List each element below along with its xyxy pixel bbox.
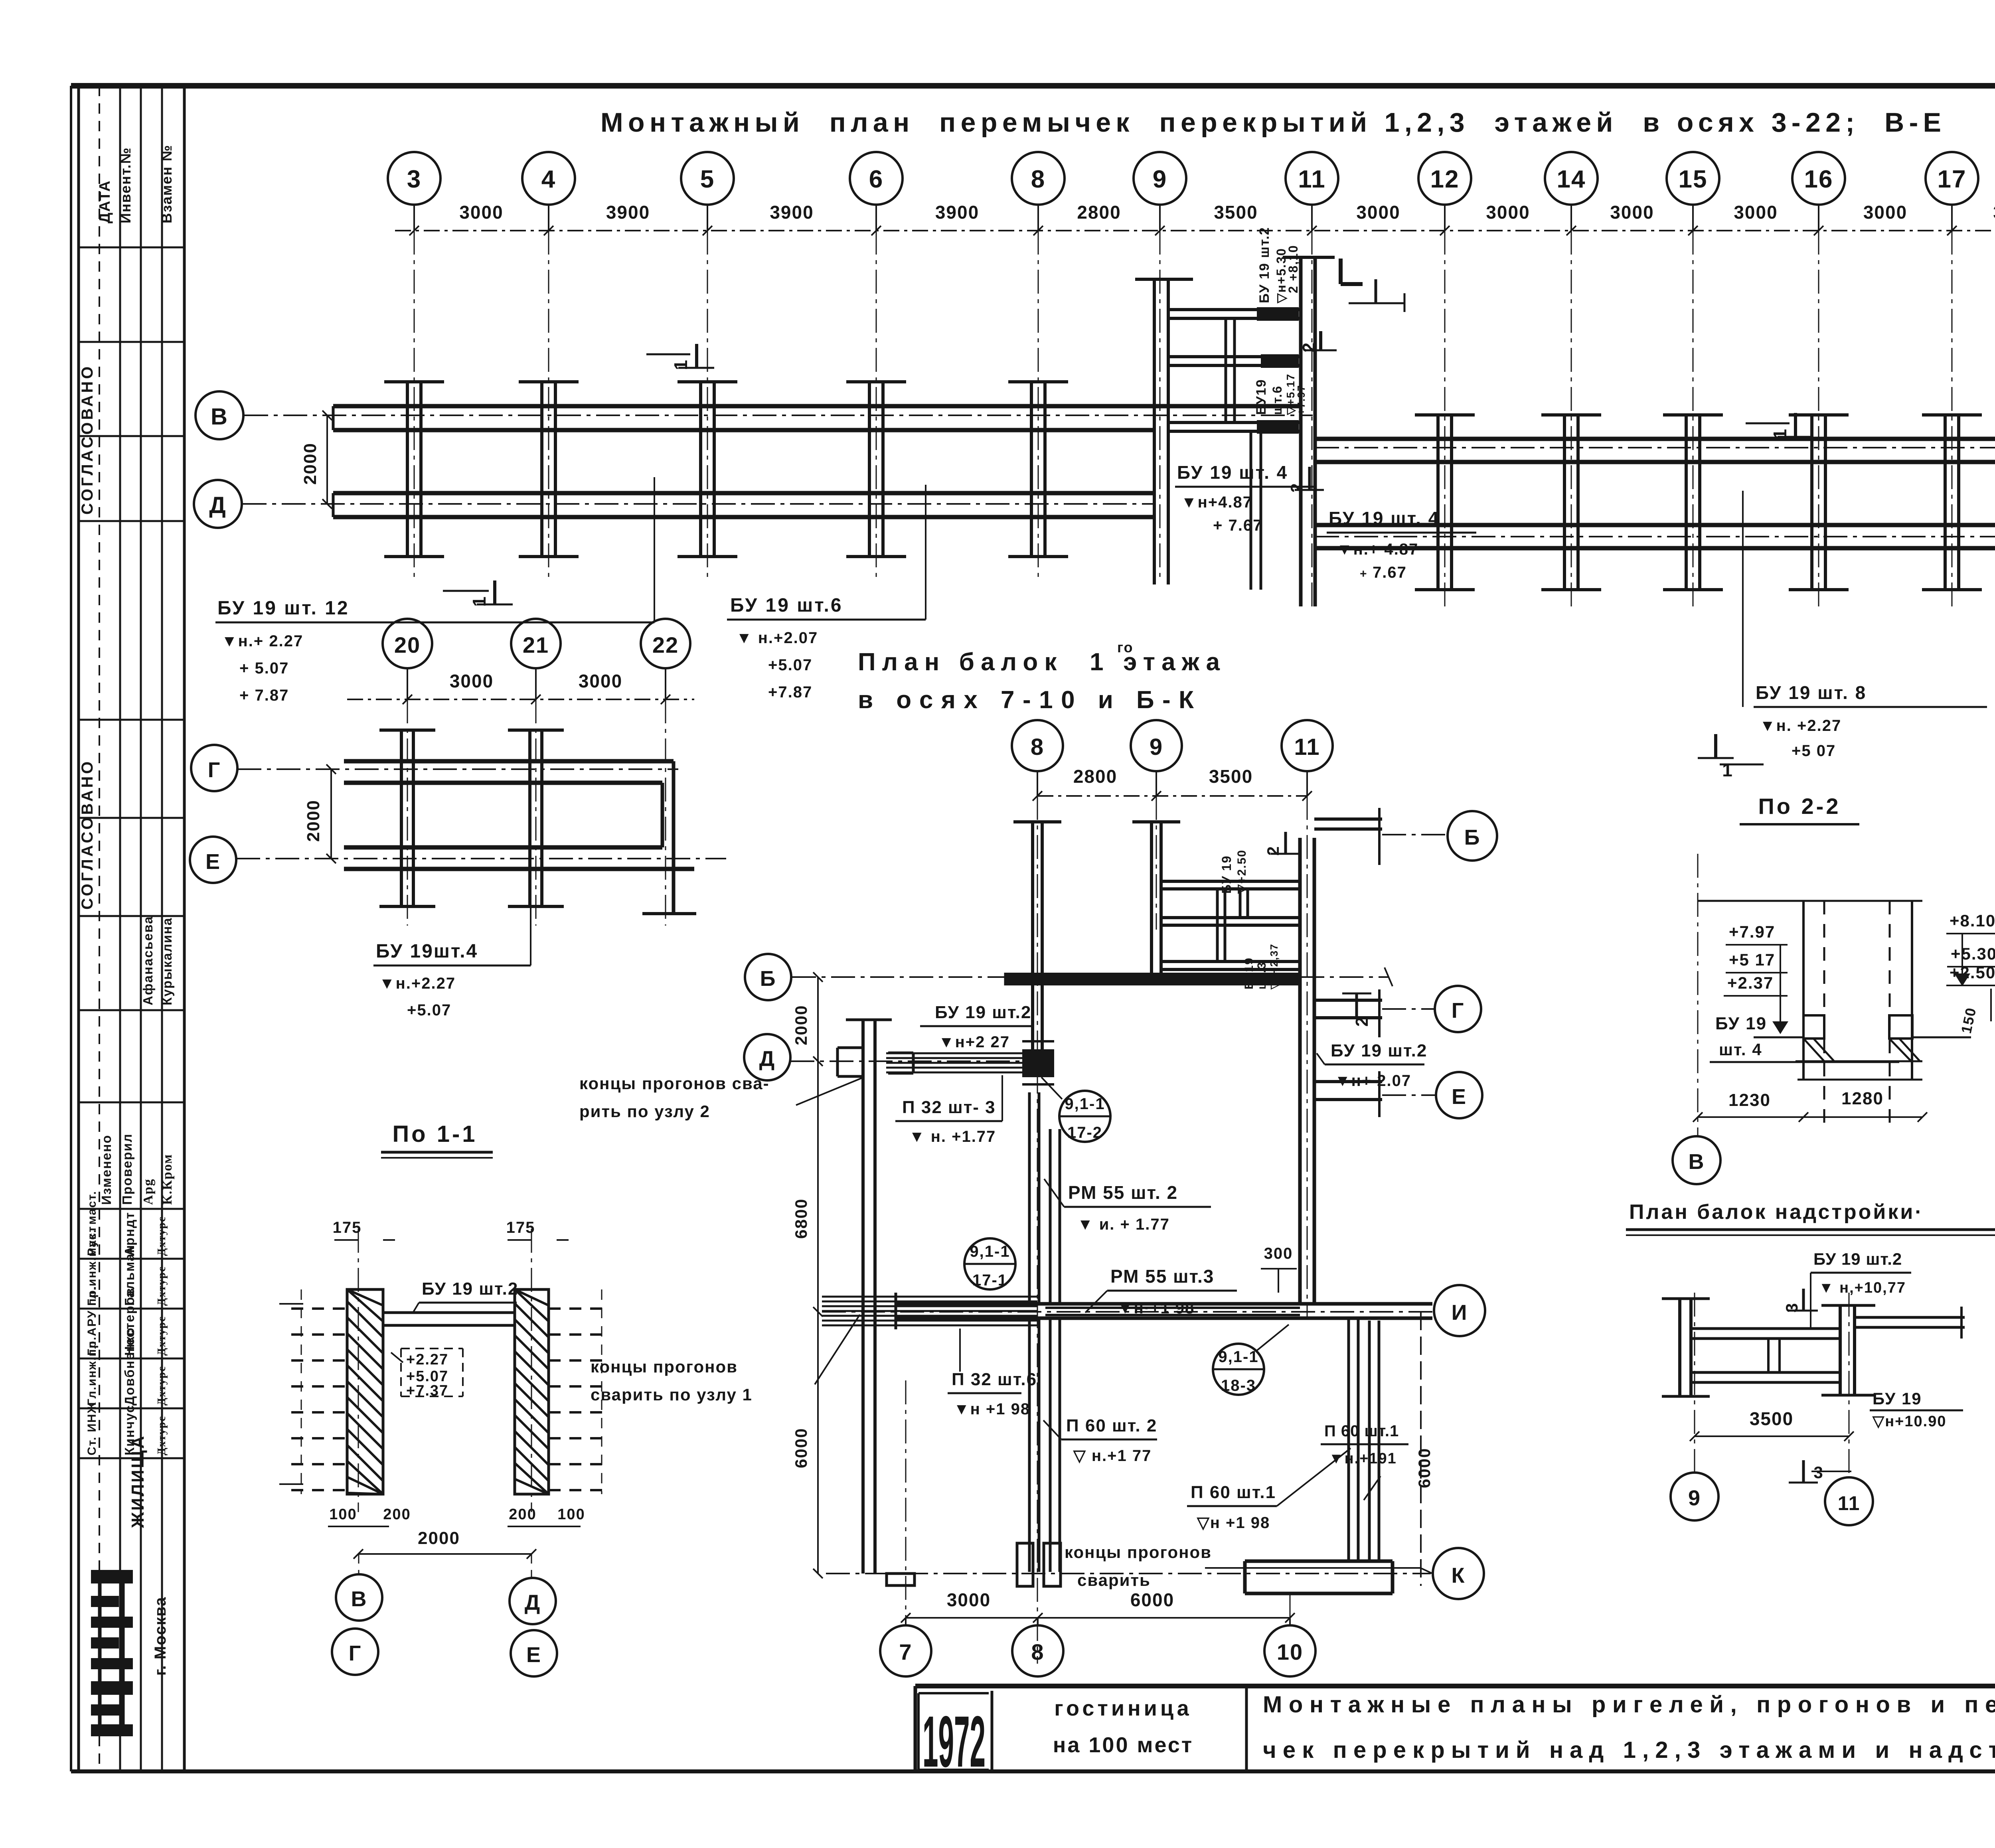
svg-text:+2.27: +2.27: [406, 1351, 448, 1368]
svg-text:▼н. +2.27: ▼н. +2.27: [1760, 717, 1841, 734]
stamp strip signature squiggles: [141, 1154, 175, 1205]
row Д wall band: [333, 493, 1153, 517]
svg-text:9,1-1: 9,1-1: [1065, 1095, 1105, 1113]
top plan wall columns axes 3-8: [384, 382, 1068, 557]
central plan row И wall band: [896, 1293, 1432, 1329]
central plan bottom axis bubbles 7-8-10: [880, 1618, 1316, 1676]
svg-text:Афанасьева: Афанасьева: [140, 916, 155, 1005]
small plan wall bands rows Г-Е: [344, 761, 696, 914]
svg-text:200: 200: [509, 1506, 536, 1523]
svg-text:БУ 19 шт.2: БУ 19 шт.2: [1813, 1250, 1902, 1268]
label концы прогонов сварить по узлу 2: [579, 1074, 864, 1121]
svg-text:6000: 6000: [1130, 1589, 1174, 1610]
svg-text:сварить по узлу 1: сварить по узлу 1: [591, 1385, 753, 1404]
section 1-1 bottom dims 100 200: [328, 1506, 585, 1526]
stamp strip name Афанасьева: [140, 916, 155, 1005]
svg-text:1972: 1972: [922, 1701, 986, 1782]
svg-text:шт.6: шт.6: [1270, 385, 1284, 415]
svg-text:▼н +1 98: ▼н +1 98: [954, 1400, 1030, 1418]
svg-text:22: 22: [652, 632, 679, 657]
svg-text:9,1-1: 9,1-1: [970, 1243, 1010, 1260]
svg-text:2000: 2000: [792, 1005, 810, 1045]
svg-text:Изменено: Изменено: [99, 1135, 114, 1205]
svg-text:Г: Г: [1452, 999, 1465, 1023]
stamp strip label ЖИЛИЩА: [128, 1434, 148, 1528]
svg-text:+7.97: +7.97: [1729, 922, 1775, 941]
small plan dimension line: [347, 671, 694, 704]
row Г bubble (right central): [1382, 986, 1481, 1032]
svg-text:Б: Б: [760, 967, 776, 991]
svg-text:2000: 2000: [418, 1528, 460, 1548]
svg-text:2: 2: [1264, 845, 1282, 855]
РМ 55 girders (vertical pair) below Д: [1029, 1092, 1060, 1304]
svg-text:17: 17: [1938, 166, 1967, 193]
svg-text:11: 11: [1294, 734, 1320, 760]
svg-text:7.67: 7.67: [1373, 564, 1407, 581]
svg-text:Инвент.№: Инвент.№: [117, 147, 134, 223]
bearing pad at row К (right): [1245, 1561, 1393, 1593]
label П 60 шт.2: [1043, 1416, 1157, 1465]
central plan axis 11 wall: [1300, 838, 1314, 1305]
section mark 1 (left band lower): [443, 580, 513, 607]
svg-text:3500: 3500: [1214, 202, 1258, 223]
title block main name line 2: [1263, 1737, 1995, 1763]
svg-text:8: 8: [1031, 734, 1044, 760]
central plan axis 8 grid line: [1037, 796, 1038, 1664]
row В wall band: [333, 406, 1300, 430]
svg-text:Д: Д: [209, 492, 226, 518]
central plan row Б dash line: [792, 976, 1389, 978]
svg-text:1280: 1280: [1841, 1089, 1884, 1108]
svg-text:Е: Е: [1452, 1085, 1467, 1109]
label БУ 19 шт.8 with levels: [1743, 491, 1987, 760]
svg-text:17-2: 17-2: [1067, 1124, 1102, 1141]
svg-text:ДАТА: ДАТА: [97, 180, 113, 223]
svg-text:+5.30: +5.30: [1951, 944, 1995, 963]
svg-text:По 1-1: По 1-1: [392, 1121, 477, 1147]
dim 300 at axis 11 top: [1261, 1245, 1297, 1293]
central plan axis 11 grid line: [1307, 796, 1308, 1317]
svg-text:Довбненко: Довбненко: [122, 1327, 137, 1406]
stamp strip label СОГЛАСОВАНО (lower): [79, 759, 96, 910]
svg-text:100: 100: [557, 1506, 585, 1523]
stamp strip label ДАТА: [97, 180, 113, 223]
svg-text:+2.37: +2.37: [1727, 973, 1774, 992]
svg-text:300: 300: [1264, 1245, 1293, 1262]
svg-text:БУ 19шт.4: БУ 19шт.4: [376, 941, 478, 962]
central plan stub wall at row Г (right): [1314, 989, 1382, 1037]
stamp strip name Курыкалина: [160, 917, 174, 1005]
section 1-1 lintel БУ19 lines: [383, 1279, 518, 1325]
svg-text:3000: 3000: [1863, 202, 1907, 223]
svg-text:2 +8,10: 2 +8,10: [1286, 245, 1300, 293]
title block main name line 1: [1263, 1692, 1995, 1718]
svg-text:Монтажные планы ригелей, про: Монтажные планы ригелей, прогонов и пере…: [1263, 1692, 1995, 1718]
svg-text:Гл.инж.пр: Гл.инж.пр: [85, 1340, 99, 1406]
svg-text:2000: 2000: [300, 442, 320, 485]
svg-text:2800: 2800: [1077, 202, 1121, 223]
svg-text:▼н+2 27: ▼н+2 27: [938, 1033, 1010, 1051]
top plan axis grid lines: [414, 231, 1995, 606]
stamp strip label Взамен N: [158, 144, 175, 223]
svg-text:По 2-2: По 2-2: [1758, 794, 1841, 819]
svg-text:3000: 3000: [450, 671, 494, 691]
svg-text:Дхтурс: Дхтурс: [156, 1316, 168, 1356]
svg-text:2000: 2000: [304, 800, 323, 842]
svg-text:▽ н.+1 77: ▽ н.+1 77: [1073, 1447, 1152, 1465]
section 1-1 level box +2.27 +5.07 +7.87: [391, 1348, 463, 1399]
РМ55 шт.3 girder lines at row И: [1045, 1308, 1300, 1315]
central plan title line 2: [858, 686, 1197, 714]
section 2-2 left levels: [1724, 922, 1788, 1034]
svg-text:8: 8: [1031, 1639, 1044, 1664]
section mark 2 (central plan lower): [1342, 993, 1372, 1027]
svg-text:РМ 55 шт.3: РМ 55 шт.3: [1110, 1266, 1214, 1287]
axis 10 grid line (central plan): [1290, 1594, 1291, 1625]
svg-text:3: 3: [1813, 1463, 1823, 1482]
small plan row Г dash line: [237, 768, 678, 770]
row Д bubble: [194, 480, 242, 528]
label БУ 19 шт.2 (row Д): [920, 1003, 1032, 1051]
svg-text:3900: 3900: [770, 202, 814, 223]
svg-text:Дхтурс: Дхтурс: [156, 1266, 168, 1306]
section 1-1 hatched wall (right): [515, 1289, 549, 1494]
svg-text:3000: 3000: [579, 671, 622, 691]
main title line: [600, 107, 1945, 138]
svg-text:8: 8: [1031, 166, 1045, 193]
svg-text:3900: 3900: [606, 202, 650, 223]
svg-text:3: 3: [407, 166, 421, 193]
dim 6000 (right rotated): [1415, 1312, 1434, 1586]
svg-text:9: 9: [1153, 166, 1167, 193]
top plan dimension values: [409, 202, 1995, 235]
svg-text:12: 12: [1430, 166, 1460, 193]
svg-text:рить по узлу 2: рить по узлу 2: [579, 1102, 710, 1121]
svg-text:6: 6: [869, 166, 883, 193]
svg-text:14: 14: [1557, 166, 1586, 193]
title block гостиница на 100 мест: [1053, 1696, 1194, 1757]
svg-text:Дхтурс: Дхтурс: [156, 1216, 168, 1256]
svg-text:П 60 шт.1: П 60 шт.1: [1191, 1483, 1276, 1502]
svg-text:шт. 4: шт. 4: [1719, 1040, 1762, 1059]
label П 60 шт.1 (right): [1321, 1422, 1408, 1500]
svg-text:▼н+ 2.07: ▼н+ 2.07: [1335, 1072, 1411, 1090]
central plan left wall (axis 7 line): [846, 1020, 915, 1585]
stamp strip label г.Москва: [152, 1596, 169, 1676]
svg-text:+5 17: +5 17: [1729, 950, 1775, 969]
central plan title line 1: [858, 648, 1223, 676]
section 1-1 bubbles В Д Г Е: [332, 1554, 557, 1676]
svg-text:+2.50: +2.50: [1950, 963, 1995, 982]
svg-text:+5.07: +5.07: [407, 1001, 451, 1019]
superstructure plan title: [1626, 1200, 1995, 1235]
superstructure label БУ 19 +10.90: [1835, 1389, 1963, 1430]
svg-text:концы прогонов: концы прогонов: [1065, 1543, 1212, 1562]
svg-text:17-1: 17-1: [972, 1271, 1007, 1289]
П 60 girders (left vertical pairs): [1029, 1318, 1060, 1572]
П32 girder lines at row И: [822, 1297, 1037, 1325]
svg-text:11: 11: [1298, 166, 1326, 193]
В-Д vertical dim 2000: [300, 411, 332, 509]
svg-text:21: 21: [523, 632, 549, 657]
svg-text:20: 20: [394, 632, 421, 657]
svg-text:+ 7.67: + 7.67: [1213, 517, 1262, 534]
svg-text:200: 200: [383, 1506, 411, 1523]
svg-text:150: 150: [1958, 1006, 1979, 1035]
svg-text:БУ 19 шт.2: БУ 19 шт.2: [1257, 227, 1272, 303]
central plan И-К dim 6000: [792, 1312, 823, 1578]
svg-text:3000: 3000: [1486, 202, 1530, 223]
svg-text:▽+2.50: ▽+2.50: [1235, 849, 1248, 894]
П60 end caps at row К (left): [1017, 1543, 1061, 1586]
institute logo block ЦНИИЭП: [91, 1570, 133, 1736]
section 2-2 walls: [1698, 901, 1922, 1125]
section 2-2 axis line and В bubble: [1673, 854, 1720, 1184]
superstructure plan axis lines: [1695, 1293, 1849, 1476]
svg-text:▼н+4.87: ▼н+4.87: [1181, 494, 1252, 511]
svg-text:Apg: Apg: [141, 1179, 156, 1205]
superstructure section marks 3: [1782, 1289, 1851, 1483]
label П 32 шт-3: [895, 1075, 1002, 1145]
svg-text:3: 3: [1782, 1302, 1801, 1312]
label БУ 19 шт.6 with levels: [727, 485, 926, 701]
svg-text:3000: 3000: [1993, 202, 1995, 223]
svg-text:Д: Д: [759, 1047, 775, 1071]
svg-text:▽н +1 98: ▽н +1 98: [1197, 1514, 1270, 1532]
central plan row Б tick at right end: [1385, 967, 1393, 986]
stamp strip horizontal rules: [79, 247, 184, 1458]
svg-text:Г: Г: [349, 1641, 362, 1665]
row В bubble: [196, 391, 243, 439]
svg-text:План балок 1 этажа: План балок 1 этажа: [858, 648, 1223, 676]
section mark 2 upper (top plan): [1299, 331, 1337, 352]
svg-text:К.Кром: К.Кром: [160, 1154, 175, 1205]
svg-text:го: го: [1117, 639, 1134, 655]
svg-text:БУ 19 шт.2: БУ 19 шт.2: [1331, 1041, 1427, 1060]
section 2-2 right levels: [1946, 911, 1995, 986]
svg-text:▼н·+1 98: ▼н·+1 98: [1117, 1299, 1195, 1317]
svg-text:Е: Е: [526, 1643, 541, 1667]
svg-text:БУ 19 шт.2: БУ 19 шт.2: [935, 1003, 1031, 1022]
section 1-1 floor slab dashes: [279, 1289, 610, 1494]
section 1-1 hatched wall (left): [347, 1289, 383, 1494]
svg-text:6000: 6000: [792, 1428, 810, 1468]
svg-text:3900: 3900: [935, 202, 979, 223]
title block year 1972: [922, 1701, 986, 1782]
section 2-2 bottom dims: [1693, 1089, 1927, 1122]
svg-text:БУ 19 шт. 4: БУ 19 шт. 4: [1329, 508, 1440, 529]
svg-text:БУ 19: БУ 19: [1219, 855, 1234, 894]
title block grid: [915, 1686, 1995, 1771]
section 2-2 label БУ 19 шт.4: [1710, 1014, 1903, 1062]
svg-text:+7.97: +7.97: [1295, 385, 1307, 415]
svg-text:СОГЛАСОВАНО: СОГЛАСОВАНО: [79, 364, 96, 515]
svg-text:Б: Б: [1464, 825, 1481, 849]
node bubble 9,1-1 / 17-1: [964, 1238, 1015, 1289]
svg-text:Е: Е: [205, 850, 221, 874]
svg-text:+ 5.07: + 5.07: [239, 659, 289, 677]
svg-text:+8.10: +8.10: [1950, 911, 1995, 930]
svg-text:БУ 19 шт. 12: БУ 19 шт. 12: [217, 598, 350, 619]
svg-text:Ст. ИНЖ: Ст. ИНЖ: [85, 1402, 99, 1455]
central plan bottom dim line: [901, 1589, 1295, 1623]
svg-text:3000: 3000: [1356, 202, 1400, 223]
svg-text:4: 4: [541, 166, 556, 193]
svg-text:1230: 1230: [1728, 1090, 1771, 1110]
stair shaft rotated label БУ19 шт.6: [1254, 373, 1307, 415]
central plan axis 9 grid line: [1156, 796, 1157, 930]
superstructure plan walls: [1662, 1299, 1965, 1396]
stamp strip vertical rules: [79, 86, 184, 1771]
section По 1-1 title: [381, 1121, 493, 1158]
superstructure dim 3500: [1690, 1408, 1854, 1441]
svg-text:16: 16: [1804, 166, 1833, 193]
svg-text:БУ 19: БУ 19: [1873, 1389, 1922, 1408]
svg-text:на 100 мест: на 100 мест: [1053, 1733, 1194, 1757]
svg-text:3500: 3500: [1209, 766, 1253, 787]
label концы прогонов сварить (bottom): [1065, 1543, 1432, 1589]
small plan row Е dash line: [236, 858, 726, 859]
svg-text:2: 2: [1299, 342, 1319, 352]
label БУ 19 шт.4 (right of axis 11) with levels: [1327, 508, 1476, 581]
svg-text:В: В: [211, 404, 228, 430]
small plan row Е bubble: [190, 837, 236, 883]
stamp strip label Инвент.N: [117, 147, 134, 223]
row Д dash line (left): [790, 1060, 1053, 1062]
svg-text:3000: 3000: [1610, 202, 1654, 223]
svg-text:в осях 7-10 и Б-К: в осях 7-10 и Б-К: [858, 686, 1197, 714]
svg-text:▼ н. +1.77: ▼ н. +1.77: [909, 1128, 996, 1145]
svg-text:Взамен №: Взамен №: [158, 144, 175, 223]
superstructure label БУ 19 шт.2 +10.77: [1811, 1250, 1911, 1329]
axis 7 grid line (central plan): [905, 1380, 907, 1625]
svg-text:175: 175: [506, 1219, 535, 1236]
svg-text:БУ 19 шт.6: БУ 19 шт.6: [730, 595, 843, 616]
stair shaft rotated label БУ19 шт.2: [1257, 227, 1300, 304]
small plan Г-Е dim 2000: [304, 764, 336, 863]
node bubble 9,1-1 / 17-2: [1041, 1077, 1110, 1142]
svg-text:Д: Д: [525, 1591, 541, 1615]
svg-text:+ 7.87: + 7.87: [239, 687, 289, 704]
svg-text:П 60 шт.1: П 60 шт.1: [1324, 1422, 1399, 1440]
svg-text:+7.37: +7.37: [406, 1382, 448, 1399]
svg-text:5: 5: [700, 166, 715, 193]
svg-text:▼ н.+2.07: ▼ н.+2.07: [736, 629, 818, 647]
central plan stair shaft walls: [1162, 881, 1300, 969]
label БУ 19 шт.4 (axis 9) with levels: [1175, 462, 1315, 534]
svg-text:▼н.+ 2.27: ▼н.+ 2.27: [221, 632, 303, 650]
svg-text:6000: 6000: [1415, 1448, 1434, 1488]
svg-text:▽н+10.90: ▽н+10.90: [1872, 1413, 1946, 1430]
svg-text:И: И: [1452, 1301, 1468, 1325]
svg-text:175: 175: [333, 1219, 362, 1236]
central plan row И dash line: [822, 1311, 1433, 1313]
superstructure axis bubbles 9 and 11: [1671, 1473, 1873, 1525]
svg-text:гостиница: гостиница: [1054, 1696, 1192, 1720]
svg-text:15: 15: [1679, 166, 1708, 193]
section 1-1 axis lines and 175 dims: [333, 1219, 569, 1512]
svg-text:П 32 шт.6: П 32 шт.6: [952, 1370, 1037, 1389]
row Б bubble (left): [745, 954, 791, 1000]
label П 32 шт.6: [948, 1329, 1037, 1418]
svg-text:концы прогонов сва-: концы прогонов сва-: [579, 1074, 770, 1093]
svg-text:▼н.+2.27: ▼н.+2.27: [379, 975, 456, 992]
central plan axis 8 and 9 upper walls: [1013, 822, 1180, 1049]
svg-text:3500: 3500: [1750, 1408, 1794, 1429]
svg-text:Г: Г: [208, 758, 221, 782]
central plan axis bubbles 8-9-11: [1012, 720, 1333, 796]
row Д axis dash line: [243, 503, 1153, 505]
rows Г and Е wall bands: [1315, 439, 1995, 548]
svg-text:7: 7: [899, 1639, 912, 1664]
svg-text:+7.87: +7.87: [768, 683, 812, 701]
top plan wall columns axes 12-20: [1415, 415, 1995, 590]
row Е bubble (right central): [1382, 1072, 1482, 1118]
svg-text:РМ 55 шт. 2: РМ 55 шт. 2: [1068, 1182, 1178, 1203]
central plan Б-И dim 6800: [792, 1061, 823, 1317]
svg-text:100: 100: [329, 1506, 357, 1523]
pencil mark L near axis 11: [1341, 259, 1404, 312]
central plan Б-Д dim 2000: [792, 972, 823, 1066]
svg-text:БУ19: БУ19: [1254, 379, 1269, 415]
central plan top dimension line: [1033, 766, 1312, 801]
small plan row Г bubble: [191, 745, 237, 791]
top plan dimension line: [395, 230, 1995, 231]
П32 girder lines at row Д: [886, 1053, 1022, 1072]
svg-text:3000: 3000: [1734, 202, 1778, 223]
svg-text:9: 9: [1150, 734, 1163, 760]
small plan label БУ 19шт.4 with levels: [373, 840, 531, 1019]
stair shaft walls between axes 9-11 (top plan): [1135, 257, 1335, 606]
svg-text:1: 1: [1770, 428, 1790, 439]
svg-text:Дхтурс: Дхтурс: [156, 1366, 168, 1406]
svg-text:Проверил: Проверил: [120, 1133, 134, 1205]
svg-text:1: 1: [670, 359, 691, 370]
svg-text:К: К: [1452, 1564, 1466, 1587]
svg-text:В: В: [1689, 1150, 1705, 1174]
section mark 1 (left band, near axis 5): [646, 344, 714, 370]
svg-text:СОГЛАСОВАНО: СОГЛАСОВАНО: [79, 759, 96, 910]
svg-text:▼ н,+10,77: ▼ н,+10,77: [1819, 1279, 1906, 1296]
central plan stub wall at row Е (right): [1314, 1071, 1382, 1117]
svg-text:г. Москва: г. Москва: [152, 1596, 169, 1676]
svg-text:П 60 шт. 2: П 60 шт. 2: [1066, 1416, 1157, 1435]
svg-text:1: 1: [1722, 760, 1733, 780]
label П 60 шт.1 (lower): [1187, 1448, 1351, 1532]
stamp strip designer rows: [85, 1191, 168, 1455]
top plan axis bubbles 3-20: [388, 152, 1995, 231]
svg-text:+: +: [1360, 567, 1368, 580]
label РМ 55 шт.3: [1085, 1266, 1237, 1317]
section 2-2 dim 150: [1958, 989, 1991, 1035]
section 1-1 dim 2000: [354, 1528, 536, 1559]
svg-text:▼н.+ 4.87: ▼н.+ 4.87: [1337, 541, 1418, 558]
junction blocks at axis 8 row Д: [1022, 1041, 1054, 1084]
svg-text:БУ 19 шт.2: БУ 19 шт.2: [422, 1279, 518, 1299]
svg-text:БУ 19: БУ 19: [1715, 1014, 1767, 1033]
svg-text:БУ 19 шт. 8: БУ 19 шт. 8: [1756, 682, 1867, 703]
node bubble 9,1-1 / 18-3: [1213, 1325, 1289, 1395]
central plan stub wall at row Б (right): [1314, 808, 1382, 865]
stamp strip label Изменено: [99, 1135, 114, 1205]
svg-text:11: 11: [1838, 1492, 1861, 1514]
svg-text:3000: 3000: [459, 202, 503, 223]
label РМ 55 шт.2: [1044, 1179, 1211, 1233]
svg-text:6800: 6800: [792, 1198, 810, 1239]
svg-text:1: 1: [469, 596, 490, 607]
svg-text:9: 9: [1688, 1486, 1701, 1510]
section mark 2 lower (top plan): [1287, 467, 1324, 493]
